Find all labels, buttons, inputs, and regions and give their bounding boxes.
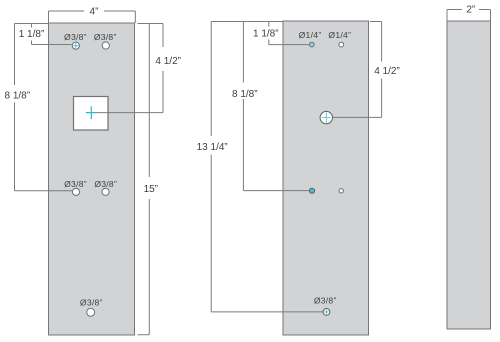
label Ø3/8" (panel 1 top-right hole) — [94, 32, 117, 42]
dimension text 8 1/8" (panel 1) — [5, 90, 31, 101]
dimension 4" (panel 1 width) — [49, 11, 136, 23]
svg-text:8 1/8”: 8 1/8” — [232, 89, 258, 100]
dimension text 2" — [466, 5, 475, 16]
dimension 1 1/8" (panel 1, top hole offset) — [15, 24, 72, 45]
svg-text:4 1/2”: 4 1/2” — [374, 66, 400, 77]
panel 3 (2in plate) — [447, 21, 491, 329]
dimension text 4 1/2" (panel 1) — [155, 56, 181, 67]
label Ø3/8" (panel 1 mid-right hole) — [94, 179, 117, 189]
dimension 4 1/2" (panel 2, big hole offset) — [333, 22, 382, 118]
dimension 8 1/8" (panel 2, middle holes offset) — [243, 22, 309, 191]
panel 2 (13 1/4 plate) — [283, 21, 369, 335]
dimension text 4" — [90, 7, 99, 18]
leader line (square cutout to 4 1/2" dimension) — [97, 112, 163, 114]
svg-text:Ø3/8”: Ø3/8” — [314, 296, 337, 306]
label Ø3/8" (panel 2 bottom hole) — [314, 296, 337, 306]
svg-text:15”: 15” — [144, 184, 158, 195]
dimension 2" (panel 3 width) — [447, 10, 491, 22]
hole F2 Ø1/4 (panel 2 middle-right) — [339, 189, 343, 193]
hole D1 Ø1/4 (panel 2 top-left, highlighted) — [309, 42, 314, 47]
hole F1 Ø1/4 (panel 2 middle-left, highlighted) — [309, 188, 314, 193]
dimension text 1 1/8" (panel 1) — [19, 29, 45, 40]
label Ø1/4" (panel 2 top-right hole) — [328, 30, 351, 40]
svg-text:1 1/8”: 1 1/8” — [19, 29, 45, 40]
svg-text:4”: 4” — [90, 7, 99, 18]
label Ø1/4" (panel 2 top-left hole) — [299, 30, 322, 40]
hole B2 Ø3/8 (panel 1 middle-right) — [102, 188, 109, 195]
big hole E1 (panel 2, with center mark) — [320, 111, 332, 123]
square cutout (panel 1) — [74, 97, 109, 131]
hole C1 Ø3/8 (panel 1 bottom) — [87, 308, 95, 316]
svg-text:1 1/8”: 1 1/8” — [253, 28, 279, 39]
svg-text:Ø3/8”: Ø3/8” — [80, 297, 103, 307]
svg-text:Ø3/8”: Ø3/8” — [94, 32, 117, 42]
svg-text:Ø3/8”: Ø3/8” — [94, 179, 117, 189]
svg-text:2”: 2” — [466, 5, 475, 16]
label Ø3/8" (panel 1 top-left hole) — [64, 32, 87, 42]
svg-text:13 1/4”: 13 1/4” — [197, 142, 228, 153]
label Ø3/8" (panel 1 mid-left hole) — [64, 179, 87, 189]
svg-text:8 1/8”: 8 1/8” — [5, 90, 31, 101]
dimension 13 1/4" (panel 2, bottom hole offset) — [211, 22, 323, 312]
hole A1 Ø3/8 (panel 1 top-left, with center mark) — [72, 41, 79, 51]
dimension 4 1/2" (panel 1, square offset) — [138, 24, 164, 113]
svg-text:4 1/2”: 4 1/2” — [155, 56, 181, 67]
panel 1 (4in x 15in plate) — [49, 23, 135, 335]
dimension text 1 1/8" (panel 2) — [253, 28, 279, 39]
dimension 15" (panel 1 height) — [138, 24, 150, 335]
dimension text 8 1/8" (panel 2) — [232, 89, 258, 100]
dimension 1 1/8" (panel 2, top hole offset) — [269, 22, 309, 45]
svg-text:Ø3/8”: Ø3/8” — [64, 179, 87, 189]
dimension text 13 1/4" (panel 2) — [197, 142, 228, 153]
top reference line (panel 2, extends left) — [211, 21, 283, 23]
hole G1 Ø3/8 (panel 2 bottom, with center mark) — [323, 309, 330, 316]
hole D2 Ø1/4 (panel 2 top-right) — [339, 42, 344, 47]
dimension 8 1/8" (panel 1, middle holes offset) — [15, 24, 73, 191]
svg-text:Ø1/4”: Ø1/4” — [328, 30, 351, 40]
center mark cross (square cutout) — [86, 106, 97, 119]
dimension text 15" — [144, 184, 158, 195]
hole A2 Ø3/8 (panel 1 top-right) — [102, 42, 109, 49]
svg-text:Ø1/4”: Ø1/4” — [299, 30, 322, 40]
hole B1 Ø3/8 (panel 1 middle-left) — [72, 188, 79, 195]
dimension text 4 1/2" (panel 2) — [374, 66, 400, 77]
label Ø3/8" (panel 1 bottom hole) — [80, 297, 103, 307]
